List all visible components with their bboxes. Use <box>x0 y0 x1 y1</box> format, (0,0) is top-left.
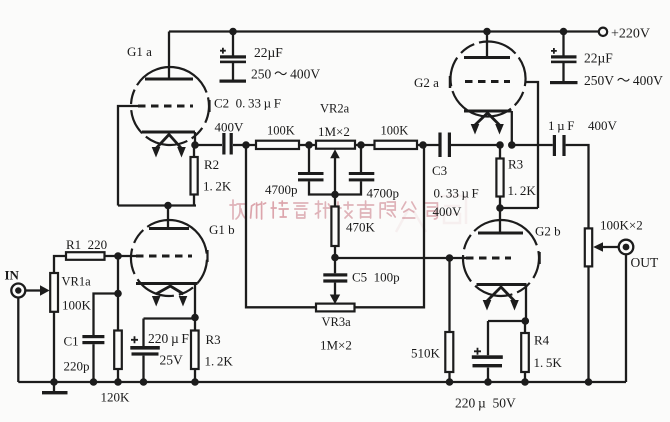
wire grid net down <box>117 256 119 331</box>
resistor R4 <box>521 333 529 372</box>
plate of G2a <box>464 56 510 59</box>
arrow right G2b <box>510 300 519 311</box>
svg-text:VR2a: VR2a <box>320 102 350 116</box>
ground symbol <box>42 382 68 394</box>
svg-text:1M×2: 1M×2 <box>320 338 352 353</box>
capacitor 220u 50V bypass <box>472 321 503 382</box>
grid tick right G1b <box>206 250 208 262</box>
cathode of G1a <box>142 131 195 134</box>
wire G2a plate lead <box>486 32 488 58</box>
svg-text:100K: 100K <box>62 298 92 313</box>
svg-text:400V: 400V <box>588 118 618 133</box>
filament of G1b <box>156 286 184 294</box>
resistor R3 of G2a <box>496 159 503 197</box>
svg-text:R4: R4 <box>534 333 550 348</box>
svg-text:IN: IN <box>5 268 20 283</box>
wire 470K top <box>334 195 336 207</box>
wire OUT shield to rail <box>625 254 627 382</box>
junction dot under 470K <box>331 254 339 262</box>
svg-text:C5 100p: C5 100p <box>352 270 400 285</box>
wire 470K bottom <box>334 246 336 258</box>
svg-text:R3: R3 <box>508 157 523 172</box>
wire IN shield down <box>17 297 19 382</box>
resistor R2 <box>191 157 198 195</box>
svg-text:4700p: 4700p <box>367 186 400 201</box>
svg-text:220 µ 50V: 220 µ 50V <box>455 396 516 411</box>
wiper arrow of VR3a <box>330 295 340 305</box>
svg-text:25V: 25V <box>160 353 184 368</box>
svg-text:1M×2: 1M×2 <box>318 124 350 139</box>
arrow right G2a <box>495 124 504 135</box>
svg-text:1. 5K: 1. 5K <box>534 355 563 370</box>
wire G1b plate lead <box>167 206 169 229</box>
junction dot grid net <box>114 252 122 260</box>
wire R3 top <box>499 145 501 159</box>
svg-text:100K: 100K <box>267 124 295 138</box>
grid of G2b <box>466 257 511 260</box>
arrow right G1a <box>177 147 186 158</box>
ground bar of 22uF right <box>550 81 578 84</box>
cathode of G2b <box>477 283 527 286</box>
svg-text:510K: 510K <box>411 346 441 361</box>
resistor 100K first <box>256 141 299 149</box>
svg-text:G2 a: G2 a <box>414 75 439 90</box>
junction dot rail VR1a <box>50 378 58 386</box>
cathode of G1b <box>136 282 198 285</box>
terminal OUT <box>619 240 634 255</box>
ground rail wire <box>18 381 626 383</box>
wire cathode node to bypass cap <box>488 320 526 322</box>
svg-text:220p: 220p <box>64 359 90 374</box>
capacitor 22uF right (filter) <box>551 32 577 82</box>
svg-text:+220V: +220V <box>611 27 650 42</box>
wire G1b cathode lead <box>194 284 196 318</box>
grid of G1a <box>138 105 193 108</box>
tube G1a envelope <box>128 64 213 149</box>
svg-text:1. 2K: 1. 2K <box>205 354 234 369</box>
wire VR1a bottom <box>53 312 55 382</box>
junction dot rail 220u50V <box>484 378 492 386</box>
filament of G1a <box>156 135 183 150</box>
svg-text:G2 b: G2 b <box>535 224 561 239</box>
svg-text:22µF: 22µF <box>584 51 613 66</box>
potentiometer VR2a <box>316 141 355 149</box>
wire R1 left to VR1a top <box>54 256 66 273</box>
wire VR3a right up to 100K/C3 node <box>355 145 425 307</box>
junction dot node B <box>496 204 504 212</box>
svg-text:C1: C1 <box>64 334 79 349</box>
wire 1uF to pot <box>566 145 589 228</box>
potentiometer 100Kx2 output <box>585 228 592 266</box>
capacitor C1 <box>82 294 118 383</box>
wire G2b cathode lead <box>525 285 527 322</box>
wire R3b bottom <box>194 369 196 382</box>
resistor R3 of G1b <box>191 331 199 370</box>
svg-text:250 ～ 400V: 250 ～ 400V <box>251 67 320 82</box>
junction dot cathode G2a <box>508 141 516 149</box>
junction dot C1 tap <box>114 290 122 298</box>
arrow right G1b <box>179 296 188 307</box>
svg-text:100K: 100K <box>381 124 409 138</box>
wire G1b grid net <box>105 255 138 257</box>
grid tick right G2b <box>538 252 541 264</box>
plate of G1a <box>145 78 193 81</box>
wire cathode node to bypass cap <box>144 317 196 319</box>
wire G1a grid to feedback node <box>118 106 140 206</box>
svg-text:R2: R2 <box>204 157 219 172</box>
junction dot cathode G1b <box>191 314 199 322</box>
svg-text:VR3a: VR3a <box>322 315 352 329</box>
grid tick right G1a <box>208 100 210 112</box>
junction dot rail R4 <box>521 378 529 386</box>
tube G2a envelope <box>445 36 532 123</box>
junction dot rail 120K <box>114 378 122 386</box>
wire into 100K first <box>246 144 309 146</box>
wire R3b top <box>194 318 196 331</box>
junction dot 510K tap <box>446 254 454 262</box>
svg-text:OUT: OUT <box>631 255 659 270</box>
junction dot rail/G2a plate <box>483 28 491 36</box>
potentiometer VR3a <box>316 304 355 312</box>
svg-text:R1 220: R1 220 <box>66 237 107 252</box>
capacitor 4700p right <box>335 145 374 195</box>
wire into 100K second <box>361 144 439 146</box>
junction dot rail 510K <box>446 378 454 386</box>
filament of G2b <box>487 287 515 301</box>
svg-text:R3: R3 <box>206 332 221 347</box>
wire 120K bottom <box>117 369 119 382</box>
capacitor C5 <box>323 258 347 295</box>
wire G1a cathode lead <box>194 132 196 145</box>
junction dot R3 top <box>496 141 504 149</box>
plate of G1b <box>149 227 189 230</box>
svg-text:G1 a: G1 a <box>127 44 152 59</box>
resistor 120K <box>114 331 122 370</box>
arrow left G1a <box>152 147 161 158</box>
arrow left G2b <box>483 300 492 311</box>
wire 510K bottom <box>448 372 450 382</box>
junction dot cathode G2b <box>522 317 530 325</box>
wire G2b plate lead <box>499 208 501 233</box>
junction dot node A <box>164 202 172 210</box>
svg-text:470K: 470K <box>346 220 376 235</box>
wire C2-node down to VR3a left <box>246 145 316 307</box>
watermark company text <box>230 200 437 219</box>
junction dot rail pot <box>585 378 593 386</box>
wire R2 top <box>193 145 195 157</box>
arrow left G1b <box>152 296 161 307</box>
ground bar of 22uF left <box>220 80 247 83</box>
watermark ghost layer <box>396 196 466 232</box>
resistor 100K second <box>375 141 418 149</box>
junction dot VR2a wiper node <box>331 191 339 199</box>
junction dot right 4700p tap <box>357 141 365 149</box>
wire node A (G1a grid / R2 / G1b plate) <box>118 204 196 206</box>
junction dot after C2 <box>242 141 250 149</box>
junction dot cathode G1a <box>191 141 199 149</box>
capacitor 22uF left (filter) <box>220 32 246 80</box>
svg-text:220 µ F: 220 µ F <box>148 331 189 346</box>
node B+ rail +220V wire <box>169 30 599 32</box>
wire grid net to G2b <box>335 257 466 259</box>
junction dot rail R3b <box>191 378 199 386</box>
svg-text:1 µ F: 1 µ F <box>548 118 574 133</box>
junction dot rail 220uF25V <box>140 378 148 386</box>
grid of G1b <box>136 255 192 258</box>
svg-text:1. 2K: 1. 2K <box>203 179 232 194</box>
svg-text:C2 0. 33 µ F: C2 0. 33 µ F <box>214 96 281 111</box>
tube G1b envelope <box>120 209 217 306</box>
plate of G2b <box>478 232 523 235</box>
grid of G2a <box>465 80 510 83</box>
svg-text:22µF: 22µF <box>254 45 283 60</box>
wiper arrow of VR1a <box>26 285 50 296</box>
grid tick left G2a <box>449 76 452 88</box>
junction dot VR3a branch <box>419 141 427 149</box>
svg-text:400V: 400V <box>215 120 245 135</box>
svg-text:400V: 400V <box>433 204 463 219</box>
wire R2 bottom <box>193 195 195 206</box>
wire cathode to 1uF <box>512 144 553 146</box>
wiper arrow of output pot <box>593 242 618 251</box>
junction dot rail/C-right <box>560 28 568 36</box>
potentiometer VR1a <box>50 273 58 312</box>
arrow left G2a <box>471 124 480 135</box>
svg-text:1. 2K: 1. 2K <box>508 183 537 198</box>
svg-text:VR1a: VR1a <box>62 275 92 289</box>
svg-text:100K×2: 100K×2 <box>600 218 643 233</box>
wire pot bottom to rail <box>587 266 589 382</box>
wire 510K top <box>448 258 450 332</box>
svg-text:0. 33 µ F: 0. 33 µ F <box>434 186 479 201</box>
wire R4 bottom <box>524 372 526 382</box>
svg-text:C3: C3 <box>432 163 447 178</box>
capacitor C3 <box>438 133 499 158</box>
svg-text:120K: 120K <box>101 390 131 405</box>
cathode of G2a <box>464 110 512 113</box>
terminal IN <box>11 284 25 298</box>
resistor 510K <box>445 332 453 372</box>
wire R4 top <box>524 321 526 333</box>
capacitor 220uF 25V bypass <box>130 319 160 383</box>
wire G1a plate lead <box>168 32 170 80</box>
terminal +220V <box>599 28 607 36</box>
junction dot left 4700p tap <box>305 141 313 149</box>
svg-text:G1 b: G1 b <box>209 222 235 237</box>
resistor 470K <box>331 207 338 247</box>
capacitor C2 <box>195 133 246 155</box>
resistor R1 <box>66 252 105 260</box>
junction dot rail C1 <box>90 378 98 386</box>
tube G2b envelope <box>457 214 545 302</box>
wire G2a grid lead <box>525 82 538 208</box>
wire R3 bottom node B (G2a grid / G2b plate) <box>500 197 538 209</box>
capacitor 1uF output <box>553 135 566 156</box>
svg-text:250V ～ 400V: 250V ～ 400V <box>584 73 663 88</box>
capacitor 4700p left <box>298 145 335 195</box>
filament of G2a <box>475 113 500 125</box>
junction dot rail/C-left <box>229 28 237 36</box>
wiper arrow of VR2a <box>330 149 340 194</box>
wire into VR2a <box>309 144 361 146</box>
wire G2a cathode lead <box>511 111 513 145</box>
svg-text:4700p: 4700p <box>265 182 298 197</box>
